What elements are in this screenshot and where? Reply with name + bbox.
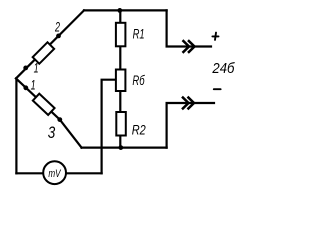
svg-text:2: 2 [54,18,60,34]
svg-text:mV: mV [48,168,61,180]
svg-text:1: 1 [31,76,36,92]
svg-text:3: 3 [48,124,56,142]
svg-text:24б: 24б [211,61,235,77]
svg-text:1: 1 [34,60,39,76]
svg-text:R1: R1 [133,25,145,41]
svg-text:R2: R2 [132,121,146,137]
svg-text:Rб: Rб [132,72,145,88]
